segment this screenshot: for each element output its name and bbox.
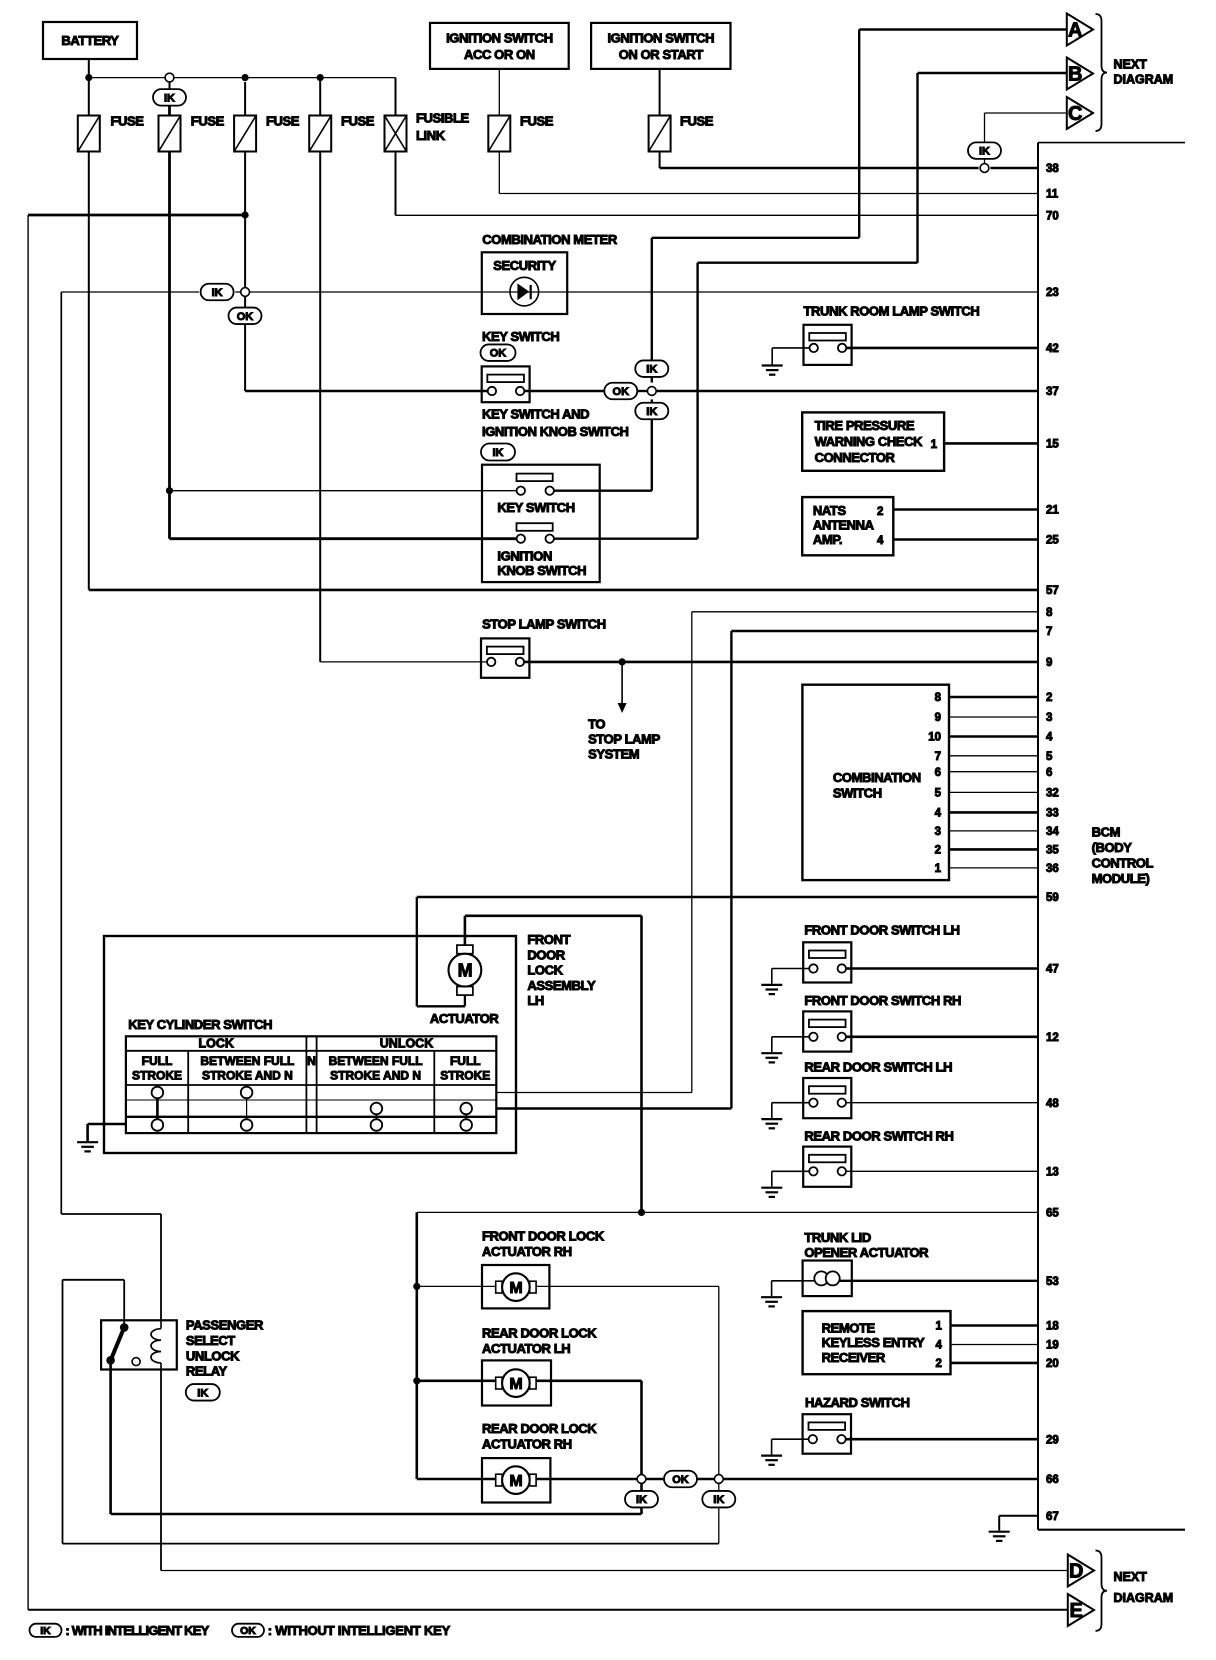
svg-text:IGNITION SWITCH: IGNITION SWITCH	[607, 31, 714, 46]
svg-text:CONTROL: CONTROL	[1092, 856, 1154, 871]
svg-text:FUSIBLE: FUSIBLE	[416, 111, 470, 126]
svg-text:MODULE): MODULE)	[1092, 871, 1150, 886]
svg-text:48: 48	[1046, 1098, 1059, 1110]
svg-text:IK: IK	[636, 1494, 647, 1506]
svg-text:FRONT DOOR LOCK: FRONT DOOR LOCK	[482, 1229, 605, 1244]
svg-text:32: 32	[1046, 788, 1059, 800]
svg-text:11: 11	[1046, 189, 1059, 201]
svg-text:15: 15	[1046, 439, 1059, 451]
svg-text:FULL: FULL	[142, 1054, 173, 1068]
svg-text:STROKE: STROKE	[132, 1069, 182, 1083]
svg-text:66: 66	[1046, 1474, 1059, 1486]
svg-text:IK: IK	[164, 92, 175, 104]
svg-text:ANTENNA: ANTENNA	[813, 518, 875, 533]
svg-text:4: 4	[935, 1340, 942, 1352]
svg-text:KEY SWITCH AND: KEY SWITCH AND	[482, 406, 589, 421]
svg-text:57: 57	[1046, 585, 1059, 597]
svg-text:6: 6	[1046, 767, 1052, 779]
svg-text:65: 65	[1046, 1208, 1059, 1220]
svg-text:IK: IK	[212, 287, 223, 299]
svg-text:OK: OK	[240, 1625, 256, 1637]
svg-text:1: 1	[935, 863, 942, 875]
svg-text:38: 38	[1046, 163, 1059, 175]
svg-text:BCM: BCM	[1092, 825, 1120, 840]
svg-text:2: 2	[935, 845, 941, 857]
svg-text:IK: IK	[646, 406, 657, 418]
svg-text:COMBINATION METER: COMBINATION METER	[482, 232, 618, 247]
svg-text:ACTUATOR RH: ACTUATOR RH	[482, 1436, 572, 1451]
svg-text:IK: IK	[40, 1625, 51, 1637]
svg-text:UNLOCK: UNLOCK	[380, 1037, 433, 1051]
svg-text:25: 25	[1046, 535, 1059, 547]
svg-text:SWITCH: SWITCH	[833, 786, 882, 801]
svg-text:67: 67	[1046, 1511, 1059, 1523]
svg-text:PASSENGER: PASSENGER	[186, 1318, 264, 1333]
svg-text:LOCK: LOCK	[198, 1037, 233, 1051]
svg-text:20: 20	[1046, 1358, 1059, 1370]
svg-text:KNOB SWITCH: KNOB SWITCH	[497, 563, 586, 578]
svg-text:FUSE: FUSE	[266, 114, 300, 129]
svg-text:7: 7	[1046, 626, 1052, 638]
svg-text:13: 13	[1046, 1166, 1059, 1178]
svg-text:NEXT: NEXT	[1114, 1570, 1148, 1584]
svg-text:IK: IK	[646, 364, 657, 376]
svg-text:: WITHOUT INTELLIGENT KEY: : WITHOUT INTELLIGENT KEY	[268, 1623, 451, 1638]
svg-text:2: 2	[877, 506, 883, 518]
svg-text:KEY CYLINDER SWITCH: KEY CYLINDER SWITCH	[128, 1017, 272, 1032]
svg-text:BATTERY: BATTERY	[61, 33, 119, 48]
svg-text:REMOTE: REMOTE	[822, 1320, 876, 1335]
svg-text:9: 9	[1046, 657, 1052, 669]
svg-text:70: 70	[1046, 210, 1059, 222]
svg-text:5: 5	[1046, 751, 1053, 763]
svg-text:59: 59	[1046, 892, 1059, 904]
svg-text:2: 2	[935, 1358, 941, 1370]
svg-text:M: M	[509, 1473, 522, 1490]
svg-text:3: 3	[935, 826, 941, 838]
svg-text:12: 12	[1046, 1032, 1059, 1044]
svg-text:23: 23	[1046, 287, 1059, 299]
svg-text:DOOR: DOOR	[527, 947, 565, 962]
svg-text:10: 10	[928, 732, 941, 744]
svg-text:M: M	[509, 1376, 522, 1393]
svg-text:IGNITION: IGNITION	[497, 548, 552, 563]
svg-text:4: 4	[935, 808, 942, 820]
svg-text:IK: IK	[713, 1494, 724, 1506]
svg-text:ACC OR ON: ACC OR ON	[464, 47, 535, 62]
svg-text:DIAGRAM: DIAGRAM	[1114, 1591, 1174, 1605]
svg-text:37: 37	[1046, 386, 1059, 398]
svg-text:ON OR START: ON OR START	[619, 47, 704, 62]
svg-text:2: 2	[1046, 692, 1052, 704]
svg-text:E: E	[1070, 1600, 1083, 1622]
svg-text:N: N	[307, 1054, 316, 1068]
svg-text:LH: LH	[527, 993, 544, 1008]
svg-text:ASSEMBLY: ASSEMBLY	[527, 978, 596, 993]
svg-text:FRONT DOOR SWITCH LH: FRONT DOOR SWITCH LH	[804, 923, 959, 938]
svg-text:B: B	[1068, 64, 1082, 86]
svg-text:CONNECTOR: CONNECTOR	[815, 450, 896, 465]
svg-text:ACTUATOR RH: ACTUATOR RH	[482, 1244, 572, 1259]
svg-text:REAR DOOR LOCK: REAR DOOR LOCK	[482, 1326, 597, 1341]
svg-text:ACTUATOR: ACTUATOR	[430, 1011, 500, 1026]
svg-text:21: 21	[1046, 505, 1059, 517]
svg-text:47: 47	[1046, 964, 1059, 976]
svg-text:M: M	[458, 960, 473, 980]
svg-text:33: 33	[1046, 808, 1059, 820]
svg-text:9: 9	[935, 712, 941, 724]
svg-text:53: 53	[1046, 1276, 1059, 1288]
svg-text:5: 5	[935, 788, 942, 800]
svg-text:OK: OK	[490, 348, 507, 360]
svg-text:OK: OK	[672, 1474, 689, 1486]
svg-text:STOP LAMP: STOP LAMP	[588, 732, 660, 747]
svg-text:IK: IK	[979, 146, 990, 158]
svg-text:BETWEEN FULL: BETWEEN FULL	[329, 1054, 423, 1068]
svg-text:FUSE: FUSE	[111, 114, 145, 129]
svg-text:HAZARD SWITCH: HAZARD SWITCH	[805, 1395, 910, 1410]
svg-text:SECURITY: SECURITY	[493, 258, 556, 273]
svg-text:STROKE AND N: STROKE AND N	[202, 1069, 293, 1083]
svg-text:FRONT: FRONT	[527, 932, 570, 947]
svg-text:(BODY: (BODY	[1092, 840, 1133, 855]
svg-text:FUSE: FUSE	[680, 114, 714, 129]
svg-text:IK: IK	[197, 1387, 208, 1399]
svg-text:TRUNK LID: TRUNK LID	[804, 1230, 870, 1245]
svg-text:18: 18	[1046, 1321, 1059, 1333]
svg-text:LINK: LINK	[416, 128, 446, 143]
svg-text:42: 42	[1046, 343, 1059, 355]
svg-text:OPENER ACTUATOR: OPENER ACTUATOR	[804, 1245, 929, 1260]
svg-text:FUSE: FUSE	[341, 114, 375, 129]
svg-text:DIAGRAM: DIAGRAM	[1114, 73, 1174, 87]
svg-text:FULL: FULL	[450, 1054, 481, 1068]
svg-text:REAR DOOR LOCK: REAR DOOR LOCK	[482, 1421, 597, 1436]
svg-text:IK: IK	[493, 447, 504, 459]
svg-text:WARNING CHECK: WARNING CHECK	[815, 434, 923, 449]
svg-text:36: 36	[1046, 863, 1059, 875]
svg-text:FUSE: FUSE	[520, 114, 554, 129]
svg-text:ACTUATOR LH: ACTUATOR LH	[482, 1341, 570, 1356]
svg-text:M: M	[509, 1280, 522, 1297]
svg-text:RECEIVER: RECEIVER	[822, 1350, 886, 1365]
svg-text:KEY SWITCH: KEY SWITCH	[482, 329, 559, 344]
svg-text:: WITH INTELLIGENT KEY: : WITH INTELLIGENT KEY	[65, 1623, 209, 1638]
svg-text:LOCK: LOCK	[527, 963, 563, 978]
svg-text:4: 4	[1046, 732, 1053, 744]
svg-text:UNLOCK: UNLOCK	[186, 1348, 240, 1363]
svg-text:TIRE PRESSURE: TIRE PRESSURE	[815, 418, 915, 433]
svg-text:7: 7	[935, 751, 941, 763]
svg-text:AMP.: AMP.	[813, 532, 842, 547]
svg-text:6: 6	[935, 767, 941, 779]
svg-text:STOP LAMP SWITCH: STOP LAMP SWITCH	[482, 617, 606, 632]
svg-text:TRUNK ROOM LAMP SWITCH: TRUNK ROOM LAMP SWITCH	[804, 303, 980, 318]
svg-text:19: 19	[1046, 1340, 1059, 1352]
svg-text:3: 3	[1046, 712, 1052, 724]
svg-text:OK: OK	[613, 386, 630, 398]
svg-text:SELECT: SELECT	[186, 1333, 235, 1348]
svg-text:A: A	[1068, 20, 1082, 42]
svg-text:FUSE: FUSE	[191, 114, 225, 129]
svg-text:TO: TO	[588, 717, 605, 732]
svg-text:OK: OK	[237, 311, 254, 323]
svg-text:NEXT: NEXT	[1114, 58, 1148, 72]
svg-text:29: 29	[1046, 1434, 1059, 1446]
svg-text:D: D	[1069, 1561, 1083, 1583]
svg-text:REAR DOOR SWITCH LH: REAR DOOR SWITCH LH	[804, 1060, 952, 1075]
svg-text:KEYLESS ENTRY: KEYLESS ENTRY	[822, 1335, 925, 1350]
svg-text:KEY SWITCH: KEY SWITCH	[497, 500, 574, 515]
svg-text:STROKE AND N: STROKE AND N	[330, 1069, 421, 1083]
svg-text:8: 8	[1046, 607, 1053, 619]
svg-text:FRONT DOOR SWITCH RH: FRONT DOOR SWITCH RH	[804, 993, 961, 1008]
svg-text:34: 34	[1046, 826, 1059, 838]
svg-text:IGNITION KNOB SWITCH: IGNITION KNOB SWITCH	[482, 424, 629, 439]
svg-text:COMBINATION: COMBINATION	[833, 770, 921, 785]
svg-text:NATS: NATS	[813, 503, 847, 518]
svg-text:STROKE: STROKE	[440, 1069, 490, 1083]
svg-text:IGNITION SWITCH: IGNITION SWITCH	[446, 31, 553, 46]
svg-text:1: 1	[931, 439, 938, 451]
svg-text:1: 1	[935, 1321, 942, 1333]
svg-text:REAR DOOR SWITCH RH: REAR DOOR SWITCH RH	[804, 1129, 953, 1144]
svg-text:C: C	[1068, 103, 1082, 125]
svg-text:35: 35	[1046, 845, 1059, 857]
svg-text:BETWEEN FULL: BETWEEN FULL	[200, 1054, 294, 1068]
svg-text:4: 4	[877, 535, 884, 547]
svg-text:RELAY: RELAY	[186, 1364, 228, 1379]
svg-text:8: 8	[935, 692, 942, 704]
svg-text:SYSTEM: SYSTEM	[588, 747, 639, 762]
